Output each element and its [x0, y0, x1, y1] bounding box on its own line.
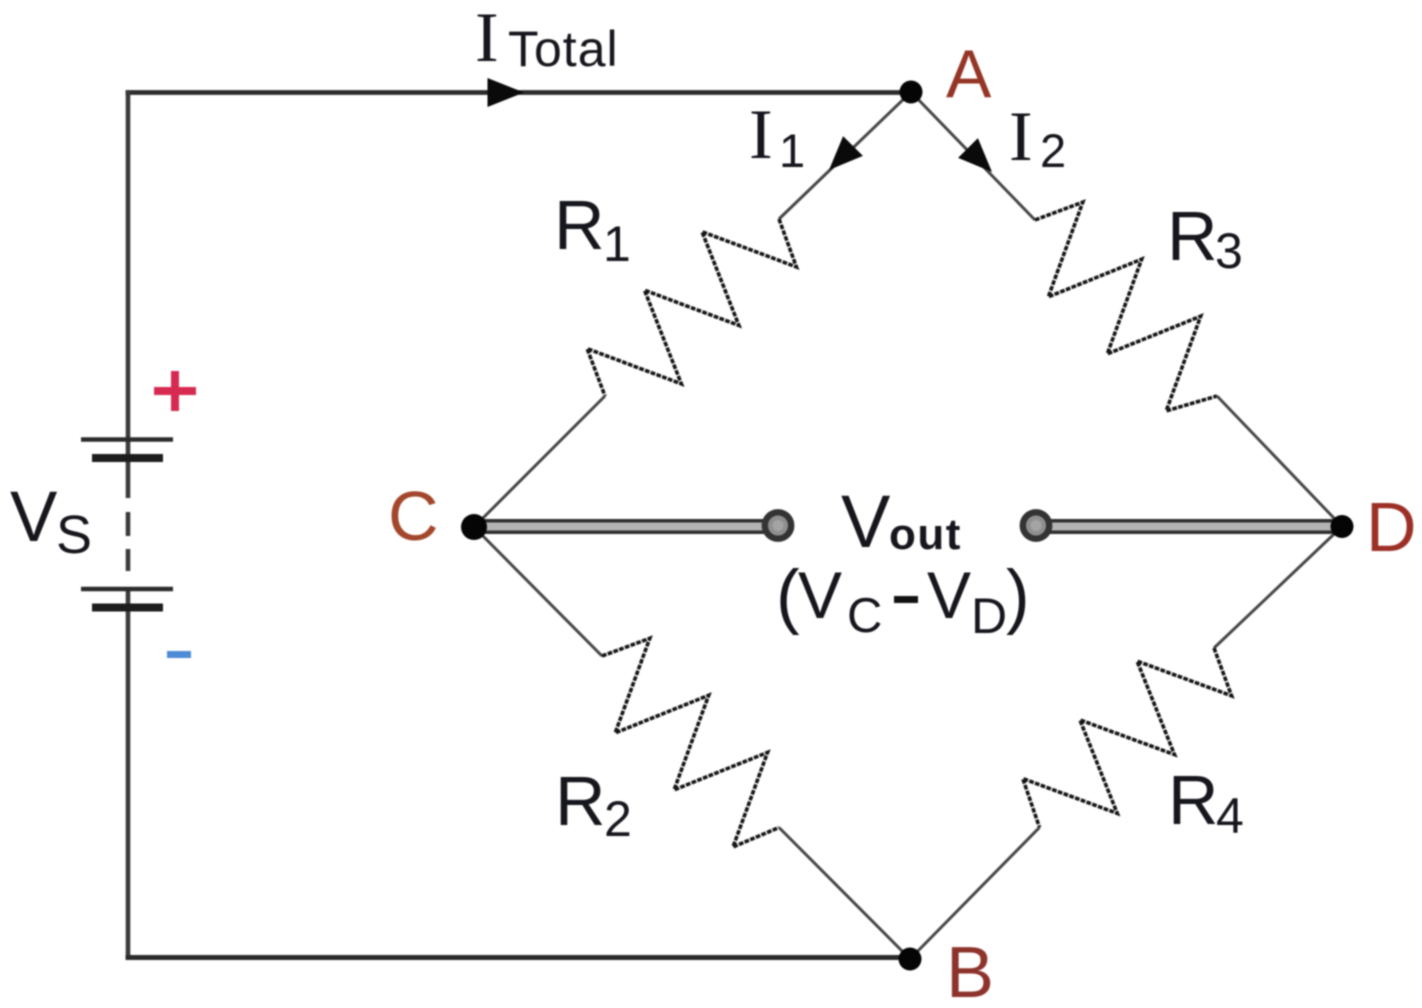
wire: Vout link from C to left terminal: [480, 519, 778, 534]
svg-text:V: V: [10, 478, 58, 557]
svg-text:R: R: [554, 186, 605, 264]
svg-text:4: 4: [1216, 788, 1244, 844]
resistor R1 zigzag: [587, 219, 796, 396]
wire: left vertical lower (battery - terminal to bottom wire): [126, 587, 131, 960]
Vout terminal left: [765, 512, 791, 538]
wire: lead R2 to B: [779, 828, 910, 960]
svg-text:V: V: [798, 558, 842, 632]
resistor R3 zigzag: [1035, 202, 1217, 411]
wire: Vout link from right terminal to D: [1036, 519, 1338, 534]
svg-text:C: C: [847, 589, 882, 643]
wire: lead A to R1: [779, 92, 911, 219]
svg-text:2: 2: [1040, 124, 1066, 177]
battery VS cell 2 long plate: [81, 587, 173, 592]
svg-text:R: R: [1168, 761, 1219, 839]
current arrow I Total on top wire: [488, 78, 525, 107]
svg-text:1: 1: [603, 216, 631, 272]
wire: lead R1 to C: [474, 396, 605, 527]
svg-text:(: (: [776, 557, 800, 636]
wire: left vertical upper (battery + terminal to top wire): [126, 90, 131, 498]
svg-text:D: D: [1366, 488, 1417, 566]
svg-text:C: C: [388, 477, 439, 555]
svg-text:3: 3: [1215, 223, 1243, 279]
node C junction dot: [461, 514, 487, 540]
svg-text:R: R: [555, 762, 606, 840]
wire: lead D to R4: [1214, 527, 1342, 649]
wire: lead R3 to D: [1217, 396, 1342, 527]
svg-text:2: 2: [604, 791, 632, 847]
node A junction dot: [900, 81, 923, 104]
battery + polarity mark: [154, 371, 196, 411]
wire: lead C to R2: [474, 527, 602, 656]
node B junction dot: [899, 948, 922, 971]
svg-text:B: B: [946, 933, 994, 1008]
wire: lead A to R3: [911, 92, 1035, 220]
current arrow I2: [958, 138, 992, 172]
battery dashed link between cells: [126, 512, 131, 536]
resistor R2 zigzag: [602, 638, 779, 847]
svg-text:R: R: [1167, 197, 1218, 275]
wire: lead R4 to B: [910, 827, 1040, 959]
svg-text:I: I: [749, 96, 773, 174]
svg-text:): ): [1006, 557, 1030, 636]
svg-text:S: S: [56, 505, 92, 565]
svg-text:I: I: [475, 0, 499, 77]
wire: top horizontal from battery to node A: [126, 90, 911, 95]
svg-text:V: V: [841, 480, 891, 563]
svg-text:A: A: [946, 36, 992, 112]
battery - polarity mark: [167, 651, 191, 658]
svg-text:out: out: [889, 510, 962, 559]
Vout terminal right: [1023, 512, 1049, 538]
svg-text:1: 1: [779, 124, 805, 177]
wire: bottom horizontal from battery to node B: [126, 955, 910, 960]
node D junction dot: [1331, 515, 1354, 538]
battery VS cell 2 short thick plate: [92, 604, 163, 612]
svg-text:Total: Total: [508, 21, 619, 77]
svg-text:D: D: [971, 588, 1007, 644]
battery VS cell 1 short thick plate: [92, 454, 163, 462]
current arrow I1: [829, 136, 863, 170]
resistor R4 zigzag: [1023, 648, 1232, 827]
battery VS cell 1 long plate: [81, 437, 173, 442]
svg-text:V: V: [927, 558, 971, 632]
svg-text:I: I: [1009, 98, 1033, 176]
